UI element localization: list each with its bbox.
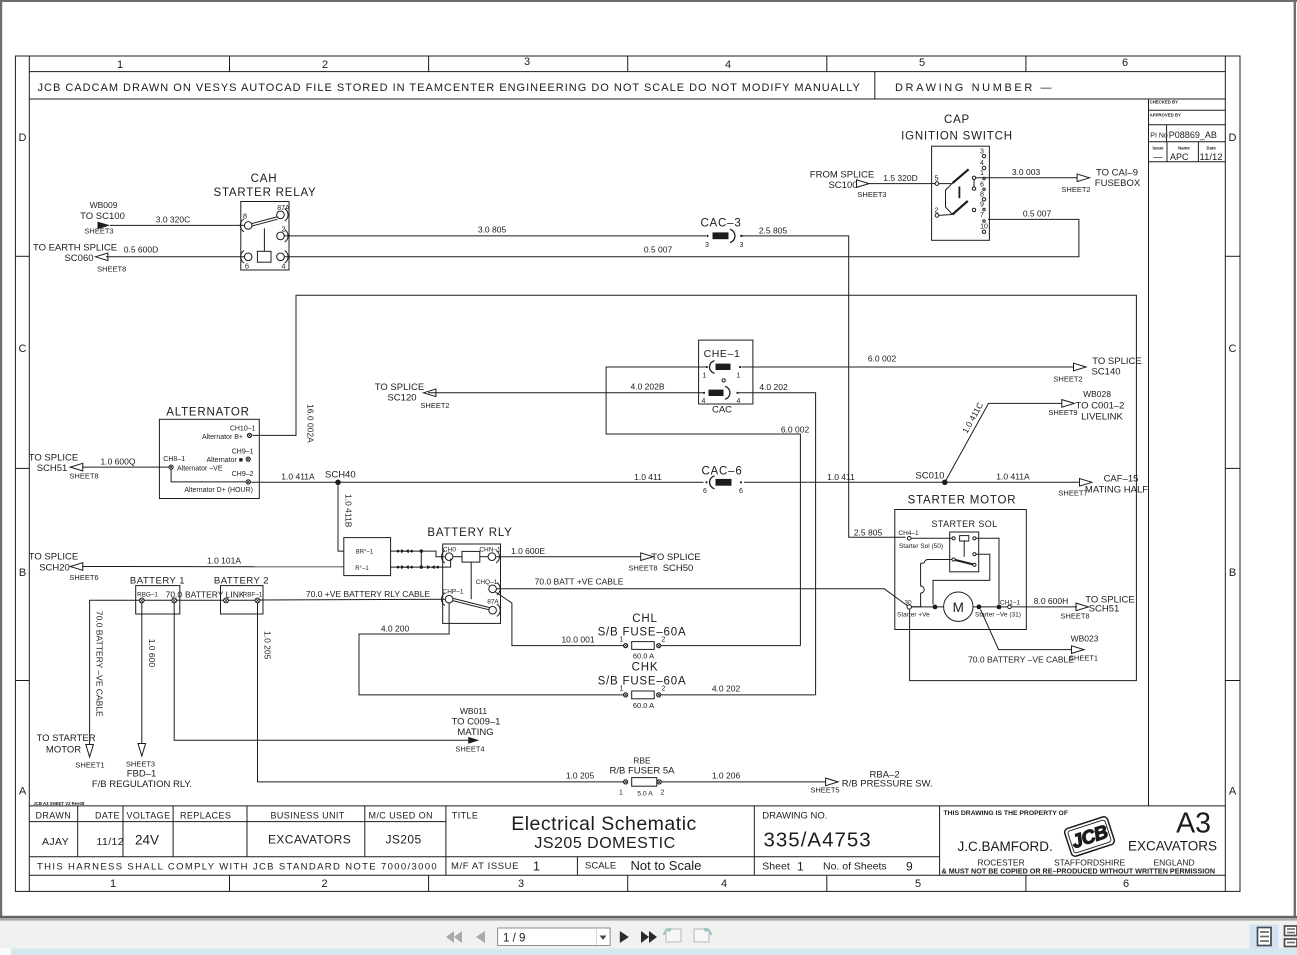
- CHE-1 center dot: [722, 379, 725, 382]
- svg-text:6.0 002: 6.0 002: [868, 354, 897, 364]
- relay CAH coil: [257, 251, 271, 262]
- wire sol contact left with jumps: [912, 560, 953, 607]
- svg-text:11/12: 11/12: [1200, 152, 1223, 163]
- frame right letter band: [1224, 56, 1226, 891]
- svg-text:CAP: CAP: [944, 114, 970, 126]
- svg-text:1: 1: [703, 373, 707, 380]
- node SC060 labels: [33, 243, 126, 274]
- arrow SCH20: [70, 563, 83, 571]
- wire 411B SCH40 down to BR-1: [338, 485, 344, 551]
- fuse CHL titles: [598, 613, 687, 639]
- wire pin30 to motor: [911, 606, 943, 608]
- wire 007 pin4 to ignition pin7: [285, 219, 1079, 256]
- svg-text:4: 4: [725, 59, 731, 71]
- svg-text:3: 3: [524, 56, 530, 68]
- svg-text:M/F AT ISSUE: M/F AT ISSUE: [451, 861, 519, 872]
- toolbar next-page buttons: [620, 931, 657, 943]
- svg-text:TO SPLICE: TO SPLICE: [375, 382, 424, 393]
- svg-text:CAH: CAH: [251, 173, 278, 185]
- svg-text:4.0 202: 4.0 202: [712, 683, 741, 693]
- svg-text:SCH51: SCH51: [1089, 604, 1120, 615]
- svg-text:1: 1: [619, 790, 623, 797]
- svg-text:JS205: JS205: [386, 833, 422, 847]
- svg-text:8: 8: [243, 212, 247, 221]
- fuse CHL body: [632, 642, 655, 650]
- svg-text:SHEET3: SHEET3: [126, 760, 155, 769]
- relay CAH title: [213, 173, 316, 199]
- svg-text:Starter Sol (50): Starter Sol (50): [899, 543, 943, 550]
- svg-text:0.5 007: 0.5 007: [1023, 209, 1052, 219]
- page border bottom shadow: [0, 916, 1297, 918]
- svg-text:4: 4: [702, 398, 706, 405]
- svg-text:R°–1: R°–1: [355, 566, 369, 572]
- node WB009 labels: [80, 200, 125, 236]
- svg-text:1: 1: [737, 373, 741, 380]
- svg-text:4: 4: [281, 262, 285, 271]
- svg-text:CAF–15: CAF–15: [1104, 474, 1139, 485]
- svg-text:DRAWING NUMBER —: DRAWING NUMBER —: [895, 82, 1054, 94]
- svg-text:D: D: [19, 132, 27, 144]
- node SCH50 labels: [628, 552, 700, 574]
- wire 600E to SCH50: [496, 556, 641, 558]
- svg-text:SC060: SC060: [64, 253, 93, 264]
- svg-text:FUSEBOX: FUSEBOX: [1095, 178, 1141, 189]
- svg-text:APPROVED BY: APPROVED BY: [1150, 112, 1181, 117]
- zone numbers top: [117, 56, 1128, 71]
- relay CAH pin 87A: [277, 209, 288, 221]
- svg-text:2: 2: [281, 225, 285, 234]
- ignition switch CAP title: [901, 114, 1013, 143]
- node WB011 labels: [452, 706, 501, 754]
- bottom number band top: [29, 874, 1225, 876]
- svg-text:CH8–1: CH8–1: [163, 456, 185, 463]
- svg-text:3: 3: [740, 242, 744, 249]
- svg-text:Issue: Issue: [1153, 146, 1165, 151]
- svg-text:BATTERY 2: BATTERY 2: [214, 576, 269, 587]
- svg-text:SHEET2: SHEET2: [1061, 185, 1090, 194]
- node SC100 labels: [810, 170, 887, 199]
- svg-text:1.0 206: 1.0 206: [712, 771, 741, 781]
- svg-text:STARTER RELAY: STARTER RELAY: [213, 187, 316, 199]
- wire 002 CHE-1 right to SC140: [742, 366, 1074, 368]
- svg-text:JCB CADCAM DRAWN ON VESYS AUT: JCB CADCAM DRAWN ON VESYS AUTOCAD FILE S…: [38, 82, 861, 94]
- svg-text:6: 6: [739, 488, 743, 495]
- wire -VE cable battery1 to sheet1: [90, 600, 140, 744]
- svg-text:S/B FUSE–60A: S/B FUSE–60A: [598, 627, 687, 639]
- arrow CAF-15: [1080, 479, 1093, 487]
- svg-text:SCH51: SCH51: [37, 463, 68, 474]
- svg-text:SC100: SC100: [828, 180, 857, 191]
- wire CHL pin2 to 002 drop: [661, 645, 800, 647]
- svg-text:Alternator D+ (HOUR): Alternator D+ (HOUR): [184, 487, 253, 494]
- wire WB011 battery1 + down and right: [174, 603, 468, 741]
- wire 411C diagonal: [945, 403, 1062, 482]
- svg-text:SHEET3: SHEET3: [857, 190, 886, 199]
- svg-text:REPLACES: REPLACES: [180, 810, 231, 820]
- ignition switch pin column: [980, 149, 988, 231]
- wire 002 net CHE-1 left loop down to fuse CHL: [606, 367, 800, 646]
- svg-text:SHEET8: SHEET8: [69, 472, 98, 481]
- node CAI-9 labels: [1061, 167, 1140, 194]
- battery 1 body: [136, 586, 180, 614]
- arrow SCH51 right: [1076, 603, 1089, 611]
- zone numbers bottom: [110, 878, 1129, 890]
- svg-text:2: 2: [934, 206, 938, 215]
- svg-text:BATTERY RLY: BATTERY RLY: [427, 527, 512, 539]
- banner bottom line: [29, 98, 1225, 100]
- starter sol coil: [952, 537, 955, 540]
- svg-text:3: 3: [705, 242, 709, 249]
- wire 002A battery feed loop: [253, 295, 1137, 680]
- svg-text:1.0 411A: 1.0 411A: [281, 472, 315, 482]
- svg-text:70.0: 70.0: [166, 590, 183, 600]
- top band ticks: [229, 56, 231, 72]
- svg-text:J.C.BAMFORD.: J.C.BAMFORD.: [958, 839, 1053, 854]
- svg-text:CHL: CHL: [632, 613, 657, 625]
- svg-text:ALTERNATOR: ALTERNATOR: [166, 407, 249, 419]
- svg-text:A3: A3: [1176, 808, 1211, 840]
- svg-text:Alternator –VE: Alternator –VE: [177, 466, 223, 473]
- svg-text:6: 6: [1122, 57, 1128, 69]
- JCB logo: [1064, 816, 1116, 857]
- svg-text:TITLE: TITLE: [452, 810, 479, 820]
- svg-text:SCH40: SCH40: [325, 470, 356, 481]
- diode block BR-1 body: [344, 538, 391, 576]
- svg-text:SHEET8: SHEET8: [97, 265, 126, 274]
- svg-text:STARTER MOTOR: STARTER MOTOR: [908, 495, 1017, 507]
- svg-text:3.0 805: 3.0 805: [478, 225, 507, 235]
- svg-text:RBG–1: RBG–1: [137, 591, 158, 598]
- battery 1 pin +: [172, 598, 177, 603]
- ignition switch body: [932, 146, 990, 240]
- svg-text:SC120: SC120: [387, 393, 416, 404]
- svg-text:9: 9: [980, 202, 984, 209]
- relay coil: [462, 551, 480, 562]
- svg-text:P08869_AB: P08869_AB: [1169, 130, 1217, 140]
- svg-text:3: 3: [518, 878, 524, 890]
- svg-text:6: 6: [245, 262, 249, 271]
- svg-text:No. of Sheets: No. of Sheets: [823, 860, 887, 872]
- banner divider drawing number: [874, 72, 876, 99]
- arrow SCH50: [641, 553, 654, 561]
- node WB023 labels: [1069, 634, 1099, 663]
- battery 2 body: [221, 586, 264, 614]
- top number band bottom: [29, 71, 1225, 73]
- svg-text:1: 1: [620, 686, 624, 693]
- wire WB023 -VE cable: [981, 610, 1073, 650]
- arrow SC060: [95, 253, 108, 261]
- svg-text:1.0 600E: 1.0 600E: [511, 546, 545, 556]
- zone letters: [19, 132, 1237, 798]
- diode symbols R-1 row: [397, 566, 400, 569]
- page border left: [0, 0, 2, 917]
- wire 206 to RBA-2: [662, 781, 826, 783]
- wire 600Q: [82, 466, 169, 468]
- svg-text:AJAY: AJAY: [42, 836, 69, 848]
- fuse RBE titles: [610, 756, 676, 777]
- toolbar prev-page buttons (disabled): [446, 931, 485, 943]
- bottom band ticks: [229, 875, 231, 891]
- svg-text:BATTERY 1: BATTERY 1: [130, 576, 185, 587]
- svg-text:SHEET2: SHEET2: [420, 401, 449, 410]
- svg-text:CH10–1: CH10–1: [230, 426, 256, 433]
- svg-text:A: A: [1229, 786, 1237, 798]
- svg-text:Date: Date: [1207, 146, 1217, 151]
- svg-text:1.0 411B: 1.0 411B: [344, 494, 354, 528]
- svg-text:4: 4: [721, 878, 727, 890]
- svg-text:SCALE: SCALE: [585, 860, 616, 871]
- svg-text:3.0 003: 3.0 003: [1012, 167, 1041, 177]
- svg-text:SC010: SC010: [915, 471, 944, 482]
- svg-text:BATTERY LINK: BATTERY LINK: [185, 590, 245, 600]
- ignition rotor: [939, 183, 953, 215]
- svg-text:Not to Scale: Not to Scale: [631, 858, 702, 873]
- svg-text:Alternator B+: Alternator B+: [202, 434, 243, 441]
- page border right: [1294, 0, 1296, 917]
- svg-text:0.5 007: 0.5 007: [644, 245, 673, 255]
- svg-text:TO SPLICE: TO SPLICE: [29, 552, 78, 563]
- arrow SCH51 left: [70, 463, 83, 471]
- svg-text:4.0 200: 4.0 200: [381, 623, 410, 633]
- svg-text:DRAWING NO.: DRAWING NO.: [762, 810, 827, 821]
- svg-text:CHECKED BY: CHECKED BY: [1150, 99, 1179, 104]
- svg-text:2: 2: [662, 636, 666, 643]
- svg-text:FROM SPLICE: FROM SPLICE: [810, 170, 874, 181]
- wire 202B to SC120: [428, 392, 705, 394]
- svg-text:WB023: WB023: [1071, 634, 1099, 644]
- node FBD-1 labels: [92, 760, 192, 791]
- svg-text:MOTOR: MOTOR: [46, 745, 81, 756]
- svg-text:C: C: [19, 343, 27, 355]
- starter sol contact: [952, 558, 955, 561]
- svg-text:EXCAVATORS: EXCAVATORS: [1128, 839, 1217, 854]
- svg-text:CHP–1: CHP–1: [443, 589, 464, 596]
- svg-text:24V: 24V: [135, 833, 159, 848]
- svg-text:SCH20: SCH20: [39, 563, 70, 574]
- svg-text:60.0 A: 60.0 A: [633, 652, 654, 661]
- alternator body: [159, 419, 259, 498]
- svg-text:R/B PRESSURE SW.: R/B PRESSURE SW.: [842, 778, 933, 789]
- relay CAH body: [241, 202, 289, 271]
- wire 205 battery2 down to RBE: [258, 603, 624, 782]
- svg-text:1: 1: [117, 59, 123, 71]
- svg-text:TO SPLICE: TO SPLICE: [1092, 356, 1141, 367]
- svg-text:CAC–3: CAC–3: [700, 218, 741, 230]
- svg-text:D: D: [1229, 132, 1237, 144]
- arrow WB028: [1062, 400, 1075, 408]
- svg-text:1.0 411: 1.0 411: [827, 472, 855, 482]
- junction BR-1/R-1: [420, 551, 422, 567]
- svg-text:JS205 DOMESTIC: JS205 DOMESTIC: [534, 835, 675, 852]
- svg-text:CH1–1: CH1–1: [1000, 599, 1021, 606]
- svg-text:1.0 411A: 1.0 411A: [996, 472, 1030, 482]
- starter motor body: [895, 510, 1027, 630]
- wire 600D into pin 6: [106, 256, 244, 258]
- svg-text:6.0 002: 6.0 002: [781, 424, 810, 434]
- diode symbols BR-1 row: [397, 550, 400, 553]
- arrow RBA-2: [826, 778, 839, 786]
- svg-text:8.0 600H: 8.0 600H: [1034, 596, 1069, 606]
- wire 001 from 87A to fuse CHL: [495, 592, 623, 646]
- svg-text:2: 2: [321, 878, 327, 890]
- svg-text:SCH50: SCH50: [663, 563, 694, 574]
- svg-text:TO CAI–9: TO CAI–9: [1096, 167, 1138, 178]
- svg-text:BR°–1: BR°–1: [356, 550, 374, 556]
- arrow CAI-9: [1077, 174, 1090, 182]
- svg-text:TO STARTER: TO STARTER: [36, 733, 95, 744]
- relay contact bar: [453, 598, 490, 609]
- svg-text:MATING HALF: MATING HALF: [1085, 485, 1148, 496]
- svg-text:DRAWN: DRAWN: [36, 810, 72, 820]
- svg-text:B: B: [19, 567, 26, 579]
- svg-text:SHEET8: SHEET8: [628, 563, 657, 572]
- svg-text:10.0 001: 10.0 001: [561, 635, 594, 645]
- svg-text:1.0 101A: 1.0 101A: [207, 556, 241, 566]
- wire 200 CHP-1 to fuse CHK: [359, 603, 623, 695]
- wire BATT +VE CABLE CHQ-1 to starter pin30: [496, 589, 907, 606]
- svg-text:B: B: [1229, 567, 1236, 579]
- svg-text:1: 1: [980, 170, 984, 177]
- node SC120 labels: [375, 382, 450, 410]
- svg-text:0.5 600D: 0.5 600D: [124, 244, 159, 254]
- toolbar page combobox: [498, 928, 610, 946]
- svg-text:CH4–1: CH4–1: [898, 530, 919, 537]
- svg-text:87A: 87A: [277, 205, 290, 212]
- right band row ticks: [1225, 255, 1240, 257]
- svg-text:VOLTAGE: VOLTAGE: [127, 810, 171, 820]
- connector block CHE-1 body: [699, 340, 753, 404]
- svg-text:5: 5: [915, 878, 921, 890]
- wire 003 from pin 1: [976, 177, 1077, 179]
- svg-text:1.0 600: 1.0 600: [147, 639, 157, 668]
- svg-text:7: 7: [980, 212, 984, 219]
- svg-text:4.0 202B: 4.0 202B: [630, 381, 664, 391]
- svg-text:1: 1: [620, 636, 624, 643]
- svg-text:WB011: WB011: [460, 706, 488, 716]
- relay CAH pin 8: [240, 219, 252, 232]
- svg-text:CH9–1: CH9–1: [232, 449, 254, 456]
- arrow WB023: [1072, 646, 1085, 654]
- relay CAH pin 2: [277, 230, 288, 242]
- svg-text:4: 4: [737, 398, 741, 405]
- svg-text:EXCAVATORS: EXCAVATORS: [268, 833, 351, 847]
- motor M: [944, 592, 973, 621]
- arrow WB009: [98, 222, 111, 230]
- svg-text:1: 1: [533, 860, 540, 874]
- node SC140 labels: [1053, 356, 1141, 384]
- svg-text:MATING: MATING: [457, 727, 493, 738]
- wire coil to CH1-1 drop: [976, 538, 999, 604]
- svg-text:TO SPLICE: TO SPLICE: [29, 453, 78, 464]
- svg-text:RBF–1: RBF–1: [243, 591, 263, 598]
- relay CAH pin 4: [277, 251, 288, 263]
- svg-text:& MUST NOT BE COPIED OR R: & MUST NOT BE COPIED OR RE–PRODUCED WITH…: [942, 866, 1216, 875]
- svg-text:M/C USED ON: M/C USED ON: [369, 810, 433, 820]
- svg-text:S/B FUSE–60A: S/B FUSE–60A: [598, 676, 687, 688]
- starter sol body: [950, 532, 979, 572]
- svg-text:M: M: [953, 600, 964, 615]
- svg-text:60.0 A: 60.0 A: [633, 701, 654, 710]
- svg-text:6: 6: [980, 182, 984, 189]
- svg-text:APC: APC: [1170, 152, 1189, 162]
- wire CH4-1 to coil: [911, 537, 952, 539]
- title block top: [29, 805, 1225, 807]
- svg-text:3.0 320C: 3.0 320C: [156, 215, 191, 225]
- svg-text:2: 2: [662, 686, 666, 693]
- svg-text:1.0 205: 1.0 205: [262, 631, 272, 660]
- svg-text:5: 5: [934, 174, 938, 183]
- relay CAH contact bar: [252, 217, 278, 226]
- column lines: [77, 806, 79, 857]
- wire 202 CHE-1 right down to fuse CHK: [739, 393, 816, 695]
- arrow SC140: [1074, 363, 1087, 371]
- arrow -VE cable down: [86, 745, 94, 758]
- wire sol contact to motor left: [933, 554, 990, 604]
- relay CAH armature link: [263, 228, 265, 251]
- left band row ticks: [15, 255, 29, 257]
- svg-text:STARTER SOL: STARTER SOL: [931, 519, 997, 529]
- svg-text:F/B REGULATION RLY.: F/B REGULATION RLY.: [92, 779, 192, 790]
- wire R-1 row diodes: [391, 559, 451, 568]
- wire 320C into pin 8: [110, 224, 244, 226]
- node SCH51 labels: [29, 453, 99, 481]
- svg-text:SHEET5: SHEET5: [810, 785, 839, 794]
- node SCH20 labels: [29, 552, 99, 583]
- svg-text:TO C009–1: TO C009–1: [452, 717, 501, 728]
- svg-text:TO SPLICE: TO SPLICE: [651, 552, 700, 563]
- relay BATTERY RLY body: [443, 544, 501, 623]
- toolbar strip bottom: [0, 949, 1297, 955]
- svg-text:70.0 BATT +VE CABLE: 70.0 BATT +VE CABLE: [535, 577, 624, 587]
- svg-text:IGNITION SWITCH: IGNITION SWITCH: [901, 131, 1013, 143]
- svg-text:Sheet: Sheet: [762, 860, 790, 872]
- node WB028 labels: [1048, 389, 1124, 423]
- relay armature link: [470, 562, 472, 599]
- svg-text:JCB A3 SHEET V2 Rev08: JCB A3 SHEET V2 Rev08: [33, 801, 85, 806]
- svg-text:CHK: CHK: [632, 662, 659, 674]
- svg-text:TO C001–2: TO C001–2: [1076, 401, 1125, 412]
- node CAF-15 labels: [1058, 474, 1148, 498]
- svg-text:2.5 805: 2.5 805: [759, 226, 788, 236]
- connector CHE-1 pin1 symbol: [710, 361, 715, 374]
- svg-text:SHEET8: SHEET8: [1060, 612, 1089, 621]
- svg-text:C: C: [1229, 343, 1237, 355]
- arrow SC120: [423, 389, 436, 397]
- svg-text:SHEET2: SHEET2: [1053, 375, 1082, 384]
- arrow 600 down: [138, 744, 146, 757]
- frame left letter band: [28, 56, 30, 891]
- fuse RBE body: [632, 778, 657, 787]
- arrow WB011: [468, 737, 479, 744]
- svg-text:THIS DRAWING IS THE PROPER: THIS DRAWING IS THE PROPERTY OF: [944, 810, 1069, 817]
- svg-text:WB009: WB009: [90, 200, 118, 210]
- svg-text:1: 1: [110, 878, 116, 890]
- svg-text:SHEET6: SHEET6: [69, 573, 98, 582]
- svg-text:SHEET7: SHEET7: [1058, 489, 1087, 498]
- svg-text:70.0 +VE BATTERY RLY CABLE: 70.0 +VE BATTERY RLY CABLE: [306, 589, 431, 599]
- revision column line: [1148, 162, 1150, 806]
- wire 805 from pin 2: [285, 236, 906, 537]
- svg-text:6: 6: [703, 488, 707, 495]
- svg-text:6: 6: [1123, 878, 1129, 890]
- svg-text:2: 2: [661, 790, 665, 797]
- svg-text:PI No: PI No: [1150, 132, 1168, 139]
- svg-text:CHE–1: CHE–1: [704, 348, 741, 360]
- values row bottom: [29, 856, 939, 858]
- fuse CHK body: [632, 691, 655, 699]
- svg-text:THIS HARNESS SHALL COMPLY: THIS HARNESS SHALL COMPLY WITH JCB STAND…: [37, 862, 438, 873]
- svg-text:5.0 A: 5.0 A: [637, 791, 653, 798]
